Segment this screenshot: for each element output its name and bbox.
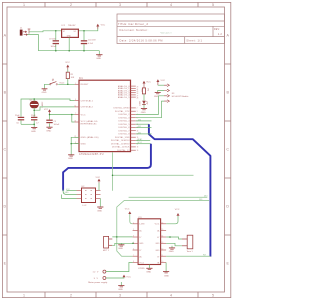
junction xtal2: [33, 109, 35, 111]
svg-text:REFERENCE): REFERENCE): [81, 124, 97, 126]
VCC symbol (avcc): [44, 109, 51, 115]
svg-text:GND: GND: [141, 112, 146, 114]
svg-text:GND: GND: [46, 131, 51, 133]
svg-text:VCC (ANALOG: VCC (ANALOG: [81, 120, 98, 123]
svg-text:DIGITAL_0/RX0: DIGITAL_0/RX0: [113, 107, 129, 110]
svg-text:VCC: VCC: [65, 62, 70, 64]
wire M1 to 1Y: [112, 236, 132, 238]
svg-text:22pF: 22pF: [15, 115, 20, 117]
connector M1 (motor left): [103, 236, 112, 252]
svg-text:19: 19: [137, 150, 139, 152]
svg-text:GND: GND: [146, 272, 151, 274]
svg-text:DIGITAL_3: DIGITAL_3: [118, 117, 129, 120]
svg-text:2: 2: [70, 294, 72, 298]
IC1 left pin stubs: [75, 84, 79, 143]
svg-text:DIGITAL_6: DIGITAL_6: [118, 126, 129, 129]
pad 5V: [94, 277, 106, 281]
svg-text:GND: GND: [67, 36, 72, 38]
svg-text:GND: GND: [118, 289, 123, 291]
wire 4Y to M2 pin1: [166, 237, 182, 239]
wire VCC to BT pin1: [158, 84, 164, 86]
junction 4A feed: [112, 174, 114, 176]
svg-text:ATMEGA328P-PU: ATMEGA328P-PU: [79, 153, 104, 156]
wire switch to gnd: [45, 84, 50, 88]
svg-text:24: 24: [137, 89, 139, 91]
svg-text:GND: GND: [118, 248, 123, 250]
svg-text:330: 330: [140, 89, 142, 92]
wire avcc net: [50, 114, 75, 116]
capacitor C7 (22pF): [31, 115, 39, 127]
IC3 pin numbers: [133, 222, 163, 263]
svg-text:GND: GND: [139, 243, 144, 245]
junction gnd net: [132, 243, 134, 245]
IC1 pin numbers: [74, 83, 138, 152]
svg-text:HC-06 BT Module: HC-06 BT Module: [172, 96, 189, 98]
svg-text:VCC: VCC: [161, 80, 166, 82]
wire J1 pin1 to regulator input: [29, 31, 62, 32]
ground (reset switch): [42, 89, 48, 94]
svg-text:Sheet: 1/1: Sheet: 1/1: [186, 38, 202, 42]
ground GND1 (power rail): [96, 51, 102, 60]
ground (IC1): [68, 155, 74, 160]
svg-text:1: 1: [23, 3, 25, 7]
right ticks: [225, 63, 231, 65]
wire net stub D9: [136, 119, 152, 121]
ground (C5): [46, 127, 52, 132]
svg-text:4: 4: [170, 294, 172, 298]
svg-text:VCC: VCC: [44, 109, 49, 111]
frame column numbers: [23, 3, 214, 297]
svg-text:GND: GND: [31, 131, 36, 133]
ground (3A): [163, 272, 169, 278]
wire net stub D10: [136, 126, 152, 128]
wire BT pin2 to gnd: [158, 91, 164, 93]
op U2 body: [82, 186, 96, 207]
svg-text:DIGITAL_8: DIGITAL_8: [118, 133, 129, 136]
svg-text:VCC: VCC: [175, 209, 180, 211]
IC1 left pin labels: [81, 84, 99, 145]
junction avcc: [71, 114, 73, 116]
wire net stub MOSI: [136, 138, 150, 141]
svg-text:DIGITAL_7: DIGITAL_7: [118, 130, 129, 133]
left ticks: [2, 63, 7, 65]
wire 4A feed: [113, 174, 194, 176]
svg-text:MOT 1: MOT 1: [103, 250, 110, 252]
svg-text:DIGITAL_4: DIGITAL_4: [118, 120, 129, 123]
U2 left pin stubs: [77, 190, 82, 198]
op IC1 ATMEGA328 body: [79, 77, 131, 156]
top ticks: [44, 2, 46, 7]
svg-text:GND: GND: [97, 210, 102, 212]
svg-text:78L05Z: 78L05Z: [68, 25, 76, 27]
capacitor C6 (22pF): [15, 115, 24, 124]
svg-text:Date: 2/24/2016 5:08:06 PM: Date: 2/24/2016 5:08:06 PM: [120, 38, 163, 42]
junction dots power rails: [55, 30, 85, 51]
svg-text:GND: GND: [169, 251, 174, 253]
wire net stub D11: [136, 132, 152, 134]
wire reset node: [58, 83, 74, 85]
svg-text:11: 11: [162, 255, 164, 257]
TITLE BLOCK: [117, 14, 225, 44]
wire 3Y to blue bus end: [166, 255, 210, 257]
svg-text:27: 27: [137, 95, 139, 97]
svg-text:25: 25: [137, 91, 139, 93]
svg-text:C9 16V: C9 16V: [49, 39, 56, 41]
svg-text:LLC: LLC: [83, 205, 87, 207]
wire IC1 RX to BT pin3: [136, 96, 164, 115]
wire U2 feed vertical: [112, 152, 114, 191]
switch S1 (reset button): [50, 79, 65, 85]
svg-text:RESET: RESET: [81, 84, 90, 86]
wire IC1 TX to BT pin4: [136, 101, 164, 118]
resistor R1 10K: [66, 70, 75, 85]
svg-text:VCC: VCC: [126, 277, 131, 279]
svg-text:Reset: Reset: [60, 81, 65, 84]
capacitor C10 (output, polarized): [81, 31, 97, 51]
IC1 right pin stubs: [131, 86, 136, 150]
svg-text:5 V: 5 V: [94, 278, 99, 280]
pad 12V: [93, 270, 106, 274]
svg-text:DIGITAL_12/SCK: DIGITAL_12/SCK: [112, 146, 130, 149]
svg-text:GND: GND: [164, 276, 169, 278]
svg-text:C: C: [3, 148, 6, 152]
wire caps common gnd: [21, 123, 34, 125]
ground (M1/IC3): [118, 243, 124, 250]
wire net D10 (inner loop to 1A): [129, 195, 209, 197]
wire net D11 (outer loop to 2A): [117, 199, 209, 256]
ground (crystal caps): [31, 128, 37, 133]
bottom ticks: [44, 292, 46, 298]
svg-text:ANALOG_5: ANALOG_5: [118, 96, 130, 99]
svg-text:D12: D12: [138, 132, 141, 134]
svg-text:DIGITAL_10/MOSI: DIGITAL_10/MOSI: [111, 139, 130, 142]
svg-text:VCC: VCC: [81, 114, 86, 116]
junction crystal top: [33, 98, 35, 100]
svg-text:10: 10: [162, 261, 164, 263]
crystal Q1: [30, 99, 43, 108]
svg-text:18: 18: [137, 147, 139, 149]
svg-text:C10 16V: C10 16V: [88, 40, 96, 42]
wire XTAL1 net: [21, 99, 75, 117]
svg-text:TITLE: Car Driver_2: TITLE: Car Driver_2: [118, 22, 148, 26]
svg-text:VCC: VCC: [96, 177, 101, 179]
junction outer loop / 1Y: [116, 236, 118, 238]
svg-text:10: 10: [74, 105, 76, 107]
svg-text:16: 16: [162, 222, 164, 224]
resistor R3: [140, 88, 148, 101]
svg-text:2: 2: [70, 3, 72, 7]
svg-text:D: D: [226, 205, 229, 209]
VCC symbol (5V): [123, 275, 132, 279]
svg-text:12 V: 12 V: [93, 272, 99, 274]
ground (LED1): [141, 105, 147, 114]
svg-text:4: 4: [170, 3, 172, 7]
junction 4Y: [169, 236, 171, 238]
svg-text:28: 28: [137, 98, 139, 100]
svg-text:100uF: 100uF: [51, 46, 57, 48]
svg-text:100nF: 100nF: [54, 124, 60, 126]
VCC symbol (IC3 enable): [125, 209, 133, 224]
svg-text:1: 1: [23, 294, 25, 298]
VCC symbol (regulator output): [96, 24, 105, 29]
svg-text:DIGITAL_1/TX: DIGITAL_1/TX: [115, 110, 130, 113]
svg-text:IC1: IC1: [79, 77, 83, 80]
ground (motor supply): [118, 282, 124, 291]
IC3 left pin labels: [139, 224, 145, 265]
VCC symbol (BT module): [156, 79, 165, 85]
svg-text:Version #: Version #: [161, 31, 173, 34]
svg-text:20: 20: [74, 121, 76, 123]
svg-text:26: 26: [137, 93, 139, 95]
wire GND to M2 pin2: [166, 243, 182, 246]
svg-text:13: 13: [162, 242, 164, 244]
ground (M2): [169, 246, 175, 253]
svg-text:CRYSTAL2: CRYSTAL2: [81, 106, 94, 109]
svg-text:GND (ANALOG): GND (ANALOG): [81, 136, 99, 139]
svg-text:GND: GND: [96, 58, 101, 60]
VCC symbol (IC3 vcc1): [166, 209, 180, 224]
junction caps gnd: [33, 124, 35, 126]
VCC symbol (reset pullup): [65, 62, 70, 70]
op IC3 body: [138, 217, 161, 270]
svg-text:14: 14: [162, 236, 164, 238]
frame row letters: [3, 34, 229, 266]
svg-text:GND: GND: [81, 143, 87, 145]
wire blue2 (TX net to U2): [63, 142, 151, 194]
capacitor C8 (input, polarized): [49, 31, 59, 51]
svg-text:DIGITAL_2: DIGITAL_2: [118, 113, 129, 116]
svg-text:VCC: VCC: [125, 209, 130, 211]
svg-text:3: 3: [119, 294, 121, 298]
wire U2 pin1 label: [66, 189, 77, 191]
svg-text:Motor power supply: Motor power supply: [88, 281, 108, 284]
svg-text:12: 12: [162, 249, 164, 251]
connector K3 HC-06 pins: [164, 84, 169, 103]
svg-text:VCC1: VCC1: [155, 224, 160, 226]
IC3 right pin labels: [155, 224, 161, 265]
svg-text:15: 15: [162, 229, 164, 231]
svg-text:DIGITAL_9/SS: DIGITAL_9/SS: [115, 136, 130, 139]
svg-text:CRYSTAL1: CRYSTAL1: [81, 100, 94, 103]
connector M2 (motor right): [182, 235, 194, 253]
svg-text:C: C: [226, 148, 229, 152]
IC3 left pin stubs: [133, 224, 139, 263]
wire XTAL2 net: [33, 108, 35, 117]
svg-text:5: 5: [212, 294, 214, 298]
svg-text:VCC2: VCC2: [139, 262, 144, 264]
svg-text:4.7uF: 4.7uF: [88, 43, 94, 45]
IC1 gnd wires: [71, 137, 79, 154]
svg-text:5: 5: [212, 3, 214, 7]
wire blue1 (RX net to bottom right): [136, 124, 211, 256]
svg-text:1.2: 1.2: [218, 32, 223, 36]
svg-text:Document Number:: Document Number:: [120, 28, 149, 32]
svg-text:3: 3: [137, 111, 138, 113]
ground (IC3 bottom): [146, 265, 152, 274]
svg-text:3: 3: [119, 3, 121, 7]
svg-text:DIGITAL_11/MISO: DIGITAL_11/MISO: [111, 143, 130, 146]
wire 3A to gnd: [165, 263, 167, 272]
VCC symbol (led): [143, 81, 152, 88]
wire regulator output to VCC: [78, 26, 97, 31]
wire 12V to VCC2: [106, 263, 133, 272]
LED1: [138, 101, 148, 106]
voltage regulator IC2: [62, 25, 79, 38]
junction gnd pins: [70, 143, 72, 145]
ground (BT module): [154, 93, 161, 98]
svg-text:GND: GND: [42, 92, 47, 94]
IC1 right pin labels: [111, 85, 130, 152]
junction reset node: [67, 84, 69, 86]
wire avcc to aref pin: [72, 115, 75, 123]
svg-text:D: D: [3, 205, 6, 209]
svg-text:GND: GND: [155, 250, 160, 252]
wire M1 pin2 to GND net: [112, 243, 132, 245]
svg-text:LED1: LED1: [138, 101, 140, 106]
IC3 right pin stubs: [161, 224, 167, 263]
svg-text:DIGITAL_13: DIGITAL_13: [117, 149, 129, 152]
wire regulator gnd stub: [68, 37, 70, 50]
VCC symbol (U2): [96, 177, 101, 191]
U2 right pin stubs: [96, 190, 101, 198]
svg-text:R3: R3: [147, 89, 149, 91]
svg-text:D11: D11: [138, 126, 141, 128]
svg-text:Term 1: Term 1: [187, 251, 194, 253]
svg-text:SCL 1: SCL 1: [138, 142, 143, 144]
svg-text:SDA 1: SDA 1: [138, 138, 143, 141]
svg-text:23: 23: [137, 87, 139, 89]
wire 5V to VCC: [106, 276, 124, 279]
svg-text:L293D: L293D: [138, 268, 145, 270]
wire J1 pin2 down to ground rail: [28, 35, 100, 51]
svg-text:1,2EN: 1,2EN: [139, 224, 145, 226]
svg-text:GND: GND: [65, 192, 70, 194]
svg-text:VCC: VCC: [101, 25, 106, 27]
svg-text:GND: GND: [68, 158, 73, 160]
svg-text:22pF: 22pF: [31, 115, 36, 117]
wire U2 pin3 label: [62, 192, 77, 198]
svg-text:2: 2: [137, 108, 138, 110]
capacitor C5 (100nF): [46, 120, 60, 127]
svg-text:REV:: REV:: [214, 29, 220, 31]
svg-text:VCC: VCC: [146, 82, 151, 84]
svg-text:GND: GND: [155, 243, 160, 245]
svg-text:D10: D10: [138, 119, 141, 121]
ground (U2): [97, 198, 103, 212]
svg-text:DIGITAL_5: DIGITAL_5: [118, 123, 129, 126]
connector J1 (DC jack): [20, 28, 31, 36]
